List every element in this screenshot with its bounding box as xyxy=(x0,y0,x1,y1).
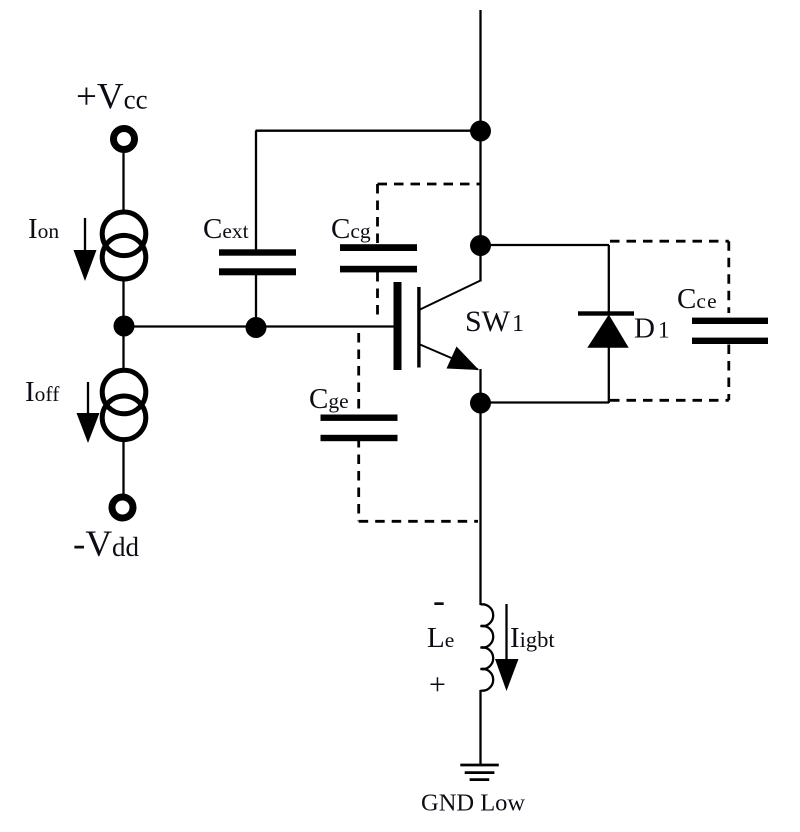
arrow Ioff current direction xyxy=(77,382,100,443)
dashed boundary top edge xyxy=(378,183,481,186)
wire from Ioff to -Vdd terminal xyxy=(122,442,124,494)
dashed boundary left lower edge through Cge xyxy=(357,333,360,521)
node A gate drive node xyxy=(114,316,135,337)
wire from node A to Ioff xyxy=(122,326,124,369)
wire gate horizontal xyxy=(124,325,394,327)
wire collector to diode branch xyxy=(481,244,610,246)
svg-text:+: + xyxy=(429,668,446,701)
inductor Le xyxy=(481,604,494,690)
svg-text:-: - xyxy=(433,580,445,620)
svg-text:D1: D1 xyxy=(634,313,669,345)
wire from Ion to node A xyxy=(122,281,124,326)
terminal -Vdd xyxy=(112,497,133,518)
dashed boundary Cce top edge xyxy=(610,240,729,243)
diode D1 xyxy=(578,311,634,348)
capacitor Cext xyxy=(219,249,296,275)
current source Ion xyxy=(102,212,146,279)
wire emitter vertical from arrow to node xyxy=(479,369,481,403)
dashed boundary Cce bottom edge xyxy=(610,399,729,402)
wire diode branch upper vertical xyxy=(608,245,610,313)
arrow Iigbt current direction xyxy=(495,604,519,691)
dashed boundary Cce right edge xyxy=(727,241,730,400)
wire from top rail down to Cext xyxy=(255,131,257,250)
svg-text:Ion: Ion xyxy=(28,213,59,245)
wire top horizontal from Cext to main rail xyxy=(256,130,481,132)
transistor SW1 emitter arrow xyxy=(447,347,480,371)
transistor SW1 emitter lead xyxy=(420,345,478,370)
transistor SW1 collector lead xyxy=(420,281,481,310)
svg-text:-Vdd: -Vdd xyxy=(73,524,140,565)
node junction Cext gate wire xyxy=(246,317,267,338)
svg-text:GND Low: GND Low xyxy=(421,790,525,817)
transistor SW1 IGBT gate bar xyxy=(394,282,402,370)
svg-text:SW1: SW1 xyxy=(465,305,524,338)
svg-text:+Vcc: +Vcc xyxy=(76,77,148,118)
wire emitter to diode branch xyxy=(481,401,610,403)
svg-text:Ccg: Ccg xyxy=(331,213,371,245)
capacitor Cge xyxy=(321,415,398,442)
svg-text:Le: Le xyxy=(427,622,454,654)
wire main vertical top segment xyxy=(479,10,481,282)
wire diode branch lower vertical xyxy=(608,347,610,403)
current source Ioff xyxy=(102,370,146,439)
wire emitter node down to inductor xyxy=(479,403,481,605)
svg-text:Iigbt: Iigbt xyxy=(510,622,555,654)
arrow Ion current direction xyxy=(74,218,97,281)
ground GND Low xyxy=(460,765,499,780)
wire from +Vcc terminal to Ion xyxy=(122,153,124,212)
transistor SW1 IGBT channel bar xyxy=(417,287,420,368)
svg-text:Cge: Cge xyxy=(309,383,349,415)
node emitter junction xyxy=(470,393,491,414)
node collector junction xyxy=(470,235,491,256)
dashed boundary bottom edge xyxy=(359,520,478,523)
svg-text:Cext: Cext xyxy=(203,213,249,245)
capacitor Ccg xyxy=(340,244,417,272)
terminal +Vcc xyxy=(114,129,135,150)
svg-text:Cce: Cce xyxy=(677,283,718,315)
wire inductor to ground xyxy=(479,690,481,765)
svg-text:Ioff: Ioff xyxy=(25,376,60,408)
capacitor Cce xyxy=(692,318,768,344)
node junction top rail xyxy=(470,121,491,142)
dashed boundary left upper edge through Ccg xyxy=(376,184,379,315)
wire from Cext to gate wire xyxy=(255,275,257,327)
